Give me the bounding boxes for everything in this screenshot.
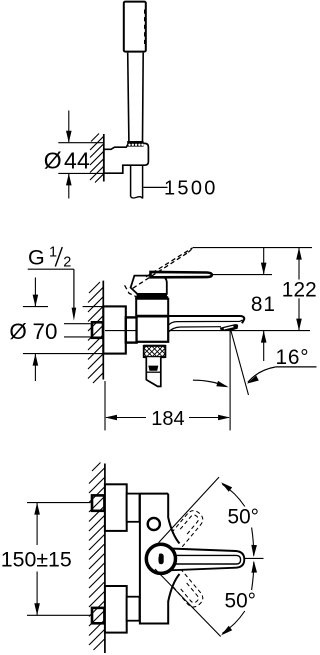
svg-text:Ø: Ø bbox=[9, 319, 26, 344]
svg-text:50°: 50° bbox=[228, 506, 259, 529]
svg-text:1500: 1500 bbox=[164, 177, 218, 199]
svg-text:G: G bbox=[28, 246, 45, 270]
svg-text:81: 81 bbox=[251, 293, 276, 316]
svg-text:1: 1 bbox=[49, 244, 57, 260]
svg-text:2: 2 bbox=[63, 255, 71, 271]
svg-text:44: 44 bbox=[64, 147, 90, 173]
svg-text:Ø: Ø bbox=[44, 147, 62, 173]
svg-text:16°: 16° bbox=[276, 346, 310, 369]
svg-text:150±15: 150±15 bbox=[1, 547, 72, 571]
svg-text:184: 184 bbox=[151, 408, 184, 430]
svg-text:70: 70 bbox=[33, 319, 58, 344]
svg-text:50°: 50° bbox=[225, 589, 256, 612]
svg-text:122: 122 bbox=[282, 278, 317, 301]
